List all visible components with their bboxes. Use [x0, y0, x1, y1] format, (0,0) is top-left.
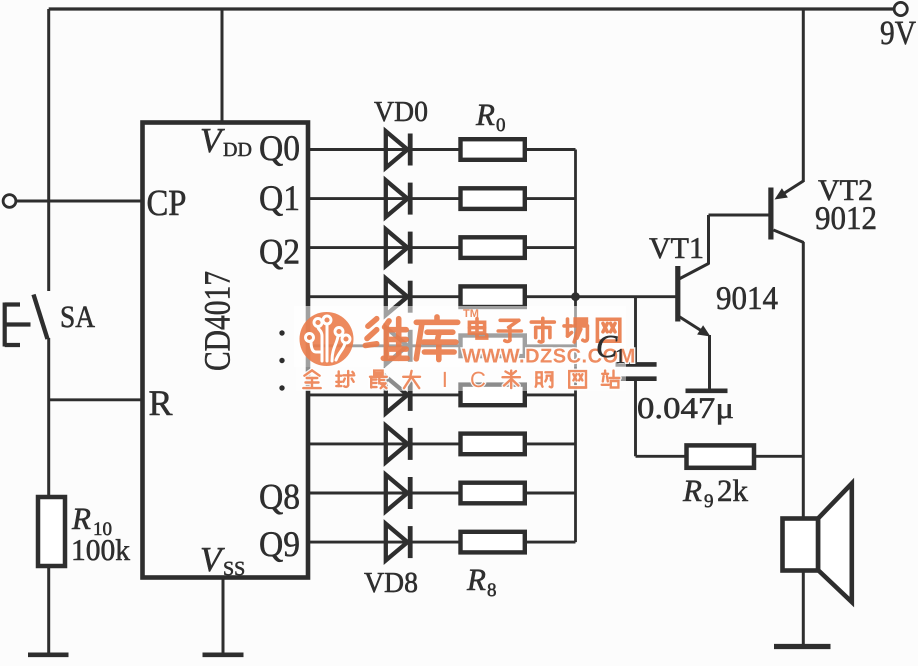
svg-text:R: R: [466, 562, 486, 597]
svg-text:0: 0: [496, 115, 506, 136]
svg-text:8: 8: [487, 580, 497, 601]
svg-text:Q9: Q9: [259, 524, 300, 564]
svg-text:2k: 2k: [717, 473, 749, 508]
svg-text:1: 1: [615, 344, 626, 368]
svg-text:VD0: VD0: [374, 96, 428, 128]
svg-text:Q0: Q0: [259, 128, 300, 168]
svg-text:I: I: [442, 367, 448, 392]
svg-text:R: R: [71, 501, 91, 536]
svg-text:SA: SA: [60, 299, 96, 334]
svg-text:R: R: [149, 383, 173, 423]
svg-text:CP: CP: [147, 183, 187, 224]
svg-text:V: V: [200, 540, 225, 579]
svg-text:Q1: Q1: [259, 178, 300, 218]
svg-text:9012: 9012: [815, 201, 877, 237]
svg-text:C: C: [470, 367, 486, 392]
svg-text:0.047μ: 0.047μ: [637, 392, 734, 425]
svg-text:Q8: Q8: [259, 477, 300, 517]
svg-text:SS: SS: [223, 558, 245, 580]
svg-text:DD: DD: [223, 139, 252, 161]
svg-text:Q2: Q2: [259, 232, 300, 272]
svg-text:9: 9: [704, 491, 714, 512]
svg-text:VT1: VT1: [649, 232, 704, 265]
svg-text:CD4017: CD4017: [198, 271, 239, 371]
svg-text:R: R: [475, 97, 495, 132]
svg-text:9V: 9V: [880, 15, 916, 52]
svg-text:VD8: VD8: [364, 567, 418, 599]
svg-text:100k: 100k: [71, 534, 130, 567]
svg-text:V: V: [200, 121, 225, 160]
svg-text:R: R: [682, 473, 702, 508]
svg-text:9014: 9014: [716, 281, 778, 317]
